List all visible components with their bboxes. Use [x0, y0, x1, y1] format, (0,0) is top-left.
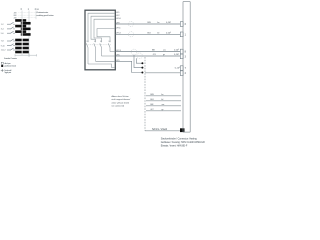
internal bottom routing wire — [88, 64, 115, 68]
legend closed square — [1, 65, 3, 67]
wire B labels BU bl 0,14 — [148, 32, 172, 35]
cut wire 3 from pin LF5 to dot — [116, 61, 142, 72]
svg-text:sw: sw — [163, 50, 166, 52]
svg-text:Kontakte / Contacts: Kontakte / Contacts — [4, 57, 17, 60]
svg-text:BN: BN — [148, 22, 151, 24]
travel axis — [15, 54, 37, 57]
connector terminal cell pin 2 — [180, 71, 183, 76]
svg-text:0,14²: 0,14² — [166, 32, 171, 35]
wire end dot 1 — [141, 62, 143, 64]
shield termination square — [180, 128, 185, 132]
leader dotted line 3 — [19, 17, 37, 19]
contact closed bar row5 left — [15, 30, 26, 33]
legend open square — [1, 62, 3, 64]
note wires without shield — [112, 95, 131, 108]
svg-text:Einsatz / insert: HAN 8D-F: Einsatz / insert: HAN 8D-F — [161, 145, 188, 148]
wire end dot 3 — [141, 72, 143, 74]
connector terminal cell pin 6 — [180, 22, 183, 27]
travel diagram column line pos1 — [21, 11, 23, 56]
svg-text:0,14²: 0,14² — [175, 66, 180, 69]
svg-text:offen / open: offen / open — [4, 63, 11, 65]
leader dotted line 1 — [19, 12, 37, 14]
travel diagram column line pos3 — [35, 11, 37, 20]
svg-text:Schirm / shield: Schirm / shield — [152, 128, 168, 131]
unconnected wire BN — [146, 95, 181, 97]
internal wire switch3 to pin LF6 — [102, 55, 116, 57]
contact closed bar row10 full — [15, 51, 29, 54]
contact closed bar row4 right — [21, 28, 31, 31]
svg-text:2N: 2N — [14, 17, 17, 19]
svg-text:3-4: 3-4 — [1, 29, 4, 31]
cable shield dashed line — [144, 57, 146, 131]
svg-text:1-2: 1-2 — [1, 24, 4, 26]
svg-text:br: br — [158, 21, 160, 24]
travel diagram header position labels — [21, 8, 37, 11]
internal wire nest from pin LF2 — [91, 16, 115, 42]
enclosure box S1 — [85, 10, 115, 70]
connector terminal cell pin 8 — [180, 49, 183, 54]
leader dotted line 2 — [19, 14, 37, 16]
internal wire switch2 to pin LF5 — [96, 60, 116, 62]
svg-text:0,14²: 0,14² — [174, 53, 179, 56]
contact closed bar row8 full — [15, 43, 29, 46]
legend trigger point symbol — [1, 69, 4, 72]
wire A brown to connector pin 6 — [116, 23, 181, 25]
svg-text:wires without shield: wires without shield — [112, 101, 129, 104]
contact closed bar row2 right — [21, 22, 31, 25]
internal wire nest from pin LF10 — [94, 19, 115, 42]
connector terminal cell pin 1 — [180, 32, 183, 37]
internal wire switch4 to pin LF13 — [110, 51, 115, 53]
svg-text:9-10: 9-10 — [1, 45, 5, 47]
twisted pair symbol wire B — [128, 32, 133, 37]
svg-text:enabling push button: enabling push button — [36, 14, 54, 17]
contact switch symbol 4 with label — [7, 39, 15, 41]
svg-text:BU: BU — [151, 99, 154, 101]
connector strip — [183, 2, 190, 133]
svg-text:br: br — [162, 93, 164, 96]
footer connector description — [161, 138, 205, 148]
svg-text:not connected: not connected — [112, 105, 125, 108]
svg-text:S4: S4 — [108, 41, 110, 43]
svg-text:S2: S2 — [94, 41, 96, 43]
switch contact 4 inside box — [108, 43, 110, 51]
svg-text:geschlossen / closed: geschlossen / closed — [4, 66, 16, 68]
contact closed bar row1 left — [15, 19, 26, 22]
travel diagram column line pos2 — [28, 11, 30, 56]
twisted pair symbol wire C — [131, 49, 137, 55]
svg-text:GY: GY — [151, 109, 155, 111]
switch contact 1 inside box — [86, 43, 88, 64]
svg-text:BN: BN — [151, 94, 154, 96]
shield branch wire to pin 2 — [145, 72, 180, 74]
twisted pair symbol wire D — [137, 53, 143, 59]
svg-text:S3: S3 — [100, 41, 102, 43]
wire C labels BK sw 0,14 — [152, 49, 179, 52]
travel diagram force labels with leader lines — [14, 12, 17, 19]
wire D labels GY gr 0,14 — [153, 53, 179, 56]
wire A labels BN br 0,14 — [148, 21, 172, 24]
contact switch symbol 1 with label — [7, 22, 15, 24]
shield wire to connector — [145, 130, 181, 132]
mechanical linkage dashed line — [87, 44, 112, 46]
svg-text:7-8: 7-8 — [1, 41, 4, 43]
svg-text:LF10: LF10 — [116, 18, 122, 20]
contact switch symbol 2 with label — [7, 27, 15, 29]
unconnected wire GY — [146, 110, 181, 112]
svg-text:Adern ohne Schirm: Adern ohne Schirm — [112, 95, 129, 98]
svg-text:5-6: 5-6 — [1, 33, 4, 35]
svg-text:11-12: 11-12 — [1, 50, 6, 52]
internal wire nest from pin LF1 — [88, 13, 115, 42]
svg-text:GY: GY — [153, 54, 157, 56]
switch contact 2 inside box — [94, 43, 96, 61]
cut wire 1 to dot — [136, 58, 142, 63]
contact switch symbol 5 with label — [7, 44, 15, 46]
internal wire nest from pin LF11 — [97, 29, 115, 43]
svg-text:sw: sw — [162, 104, 165, 106]
unconnected wire BU — [146, 100, 181, 102]
wire D grey to connector pin 3 — [116, 55, 181, 57]
svg-text:gr: gr — [162, 108, 164, 111]
wire end dot 2 — [141, 67, 143, 69]
contact closed bar row7 full — [15, 39, 29, 42]
svg-text:Gehäuse / housing: HAN 3 A ESV: Gehäuse / housing: HAN 3 A ESV-RSM-GR — [161, 141, 205, 144]
device designator S1 text — [36, 9, 54, 17]
svg-text:nicht angeschlossen/: nicht angeschlossen/ — [112, 98, 131, 101]
contact switch symbol 6 with label — [7, 48, 15, 50]
svg-text:S1: S1 — [86, 41, 88, 43]
contact closed bar row3 left — [15, 25, 26, 28]
wire B blue to connector pin 1 — [116, 33, 181, 35]
contact closed bar row9 full — [15, 47, 29, 50]
svg-text:Zustimmtaster: Zustimmtaster — [36, 11, 48, 14]
contact switch symbol 3 with label — [7, 31, 15, 33]
white seam at column pos1 — [21, 19, 24, 54]
cut wire 2 to dot — [134, 55, 142, 68]
switch contact 3 inside box — [100, 43, 102, 56]
twisted pair symbol wire A — [128, 21, 133, 26]
svg-text:gr: gr — [163, 53, 165, 56]
svg-text:BU: BU — [148, 33, 151, 35]
svg-text:Trigger point: Trigger point — [4, 71, 11, 74]
svg-text:Steckverbinder / Connector: Ha: Steckverbinder / Connector: Harting — [161, 138, 198, 141]
contact closed bar row6 right — [21, 33, 31, 36]
unconnected wire BK — [146, 105, 181, 107]
connector terminal cell pin 7 — [180, 66, 183, 71]
wire C black to connector pin 8 — [116, 51, 181, 53]
svg-text:0,14²: 0,14² — [174, 49, 179, 52]
connector terminal cell pin 3 — [180, 54, 183, 59]
svg-text:0,14²: 0,14² — [166, 21, 171, 24]
